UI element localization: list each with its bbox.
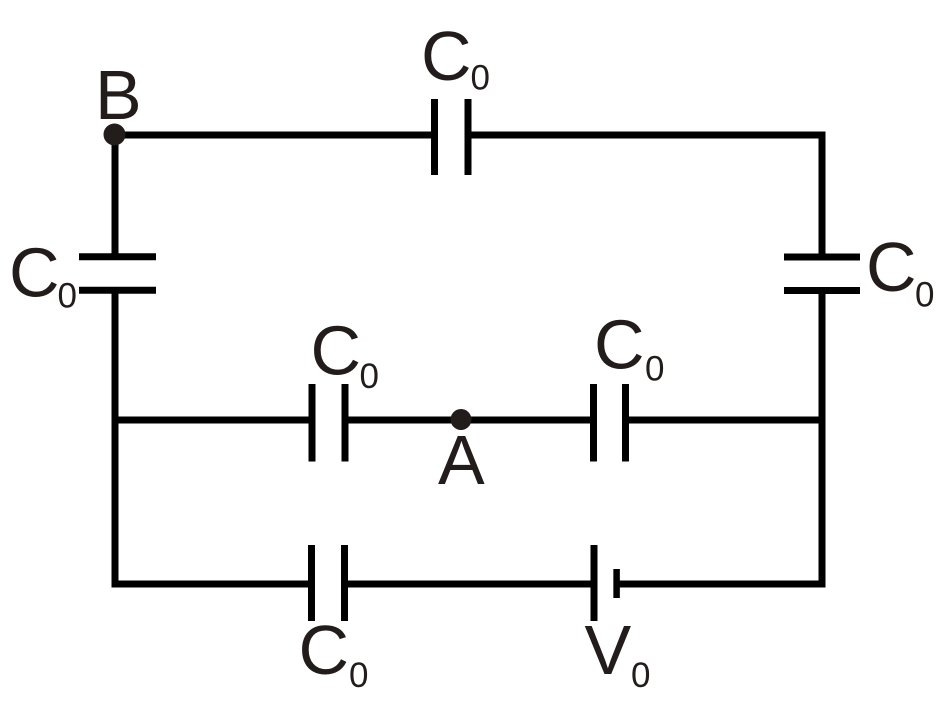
battery V0: long plate (negative terminal long line) xyxy=(591,545,598,621)
battery V0: short plate xyxy=(613,569,620,598)
capacitor C0 (top): left plate xyxy=(431,99,438,175)
capacitor C0 (bottom): right plate xyxy=(341,545,348,621)
capacitor C0 (middle-right): right plate xyxy=(622,384,629,462)
svg-text:C: C xyxy=(421,17,472,95)
svg-text:C: C xyxy=(299,611,350,689)
svg-text:0: 0 xyxy=(471,59,490,98)
svg-text:V: V xyxy=(585,611,632,689)
svg-text:0: 0 xyxy=(58,277,77,316)
capacitor C0 (right): bottom plate xyxy=(784,287,860,294)
svg-text:0: 0 xyxy=(631,656,650,695)
wire: bottom wire left segment (bottom-left corner to bottom capacitor) xyxy=(112,581,312,588)
wire: right wire lower segment (right capacitor down to bottom-right corner) xyxy=(819,291,826,588)
capacitor C0 (bottom): left plate xyxy=(308,545,315,621)
svg-text:0: 0 xyxy=(915,276,934,315)
capacitor C0 (top): right plate xyxy=(465,99,472,175)
capacitor C0 (left): top plate xyxy=(79,253,156,260)
wire: middle wire centre segment (middle-left capacitor to middle-right capacitor, through node A) xyxy=(345,417,594,424)
capacitor C0 (middle-left): left plate xyxy=(309,384,316,462)
capacitor C0 (right): top plate xyxy=(784,254,860,261)
svg-text:A: A xyxy=(438,421,485,499)
svg-text:0: 0 xyxy=(349,656,368,695)
capacitor C0 (left): bottom plate xyxy=(79,287,156,294)
wire: middle wire left segment (left wire to middle-left capacitor) xyxy=(114,417,312,424)
wire: left wire upper segment (B down to left capacitor) xyxy=(112,132,119,257)
capacitor C0 (middle-left): right plate xyxy=(342,384,349,462)
wire: bottom wire right segment (battery to bottom-right corner) xyxy=(617,581,826,588)
svg-text:0: 0 xyxy=(645,350,664,389)
capacitor C0 (middle-right): left plate xyxy=(590,384,597,462)
svg-text:C: C xyxy=(594,306,645,384)
svg-text:B: B xyxy=(95,56,142,134)
node B junction dot xyxy=(104,124,126,146)
node A junction dot xyxy=(451,409,472,430)
svg-text:C: C xyxy=(9,234,60,312)
wire: middle wire right segment (middle-right capacitor to right wire) xyxy=(626,417,823,424)
wire: bottom wire middle segment (bottom capacitor to battery) xyxy=(345,581,595,588)
wire: top wire left segment (B to top capacitor) xyxy=(114,132,435,139)
svg-text:0: 0 xyxy=(360,357,379,396)
wire: left wire lower segment (left capacitor down to bottom-left corner) xyxy=(112,290,119,587)
wire: top wire right segment (top capacitor to top-right corner) xyxy=(468,132,826,139)
wire: right wire upper segment (top-right corner down to right capacitor) xyxy=(819,132,826,258)
svg-text:C: C xyxy=(866,228,917,306)
svg-text:C: C xyxy=(311,312,362,390)
